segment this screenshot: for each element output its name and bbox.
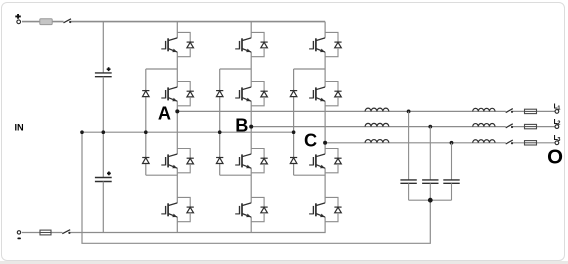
diode D18 (clamp)	[290, 158, 297, 164]
label L1	[554, 104, 561, 112]
diode D17 (clamp)	[290, 91, 297, 97]
transistor Q4 (IGBT)	[161, 203, 177, 217]
diode D15 (clamp)	[216, 91, 223, 97]
node: DC-link capacitor junction	[102, 130, 106, 134]
node B	[249, 125, 253, 129]
transistor Q7 (IGBT)	[235, 154, 251, 168]
node: neutral bus junction leg 3	[292, 130, 296, 134]
wire: leg 2 lower clamp branch	[220, 132, 252, 175]
inductor Lc2	[473, 140, 495, 143]
wire: leg 1 lower clamp branch	[146, 132, 178, 175]
wire: leg 3 vertical spine	[324, 22, 326, 233]
diode D4 (freewheel of Q4)	[177, 197, 194, 221]
transistor Q1 (IGBT)	[161, 38, 177, 52]
label L3	[554, 135, 561, 143]
transistor Q11 (IGBT)	[309, 154, 325, 168]
wire: leg 2 upper clamp branch	[220, 69, 252, 132]
diode D7 (freewheel of Q7)	[251, 149, 268, 173]
inductor Lb2	[473, 124, 495, 127]
node: neutral bus junction leg 1	[144, 130, 148, 134]
inductor Lb1	[365, 123, 389, 126]
switch S4 (output phase B)	[506, 124, 513, 128]
diode D2 (freewheel of Q2)	[177, 82, 194, 106]
inductor La1	[365, 108, 389, 111]
wire: neutral mid bus	[82, 131, 294, 133]
transistor Q12 (IGBT)	[309, 203, 325, 217]
capacitor C5 (filter, phase C)	[443, 180, 459, 200]
diode D14 (clamp)	[142, 158, 149, 164]
switch S2 (DC-)	[62, 230, 70, 234]
svg-text:3: 3	[557, 137, 560, 143]
transistor Q6 (IGBT)	[235, 87, 251, 101]
capacitor C2 (lower DC link)	[95, 132, 112, 232]
terminal L1	[555, 110, 559, 114]
diode D5 (freewheel of Q5)	[251, 32, 268, 56]
diode D3 (freewheel of Q3)	[177, 149, 194, 173]
label L2	[554, 119, 561, 127]
wire: leg 1 vertical spine	[176, 22, 178, 233]
label: + polarity mark	[15, 14, 20, 19]
wire: neutral riser down-left	[82, 132, 430, 243]
terminal L2	[555, 125, 559, 129]
switch S3 (output phase A)	[506, 109, 513, 113]
terminal: DC+ input	[17, 20, 21, 24]
diode D6 (freewheel of Q6)	[251, 82, 268, 106]
terminal: DC- input	[17, 231, 20, 234]
wire: filter branch phase C	[451, 143, 453, 180]
diode D1 (freewheel of Q1)	[177, 32, 194, 56]
wire: filter capacitor common rail	[409, 199, 452, 201]
svg-text:A: A	[158, 104, 171, 124]
svg-text:IN: IN	[15, 122, 25, 132]
capacitor C3 (filter, phase A)	[400, 180, 416, 200]
wire: phase B output line	[251, 126, 555, 128]
transistor Q10 (IGBT)	[309, 87, 325, 101]
node: neutral riser junction	[80, 130, 84, 134]
capacitor C1 (upper DC link)	[95, 22, 112, 133]
node: neutral bus junction leg 2	[218, 130, 222, 134]
svg-text:B: B	[235, 116, 248, 136]
svg-text:O: O	[547, 147, 563, 169]
svg-text:1: 1	[557, 106, 560, 112]
inductor La2	[473, 108, 495, 111]
transistor Q8 (IGBT)	[235, 203, 251, 217]
node: filter tap phase C	[450, 141, 454, 145]
wire: top DC+ bus	[22, 21, 325, 23]
diode D8 (freewheel of Q8)	[251, 197, 268, 221]
wire: bottom DC- bus	[22, 232, 326, 234]
inductor Lc1	[365, 140, 389, 143]
fuse F5 (output phase C)	[525, 141, 537, 145]
capacitor C4 (filter, phase B)	[422, 180, 438, 200]
wire: filter branch phase B	[429, 127, 431, 180]
transistor Q2 (IGBT)	[161, 87, 177, 101]
wire: leg 3 upper clamp branch	[294, 69, 326, 132]
diode D16 (clamp)	[216, 158, 223, 164]
node: filter neutral	[428, 198, 433, 203]
node: filter tap phase B	[428, 125, 432, 129]
diode D10 (freewheel of Q10)	[325, 82, 342, 106]
svg-text:2: 2	[557, 121, 560, 127]
terminal L3	[555, 141, 559, 145]
transistor Q5 (IGBT)	[235, 38, 251, 52]
switch S1 (DC+)	[64, 19, 72, 23]
switch S5 (output phase C)	[506, 140, 513, 144]
node: filter tap phase A	[407, 110, 411, 114]
wire: phase A output line	[177, 110, 555, 112]
diode D11 (freewheel of Q11)	[325, 149, 342, 173]
fuse F3 (output phase A)	[525, 109, 537, 113]
diode D12 (freewheel of Q12)	[325, 197, 342, 221]
fuse F4 (output phase B)	[525, 124, 537, 128]
node A	[175, 109, 179, 113]
wire: phase C output line	[325, 142, 555, 144]
wire: filter branch phase A	[408, 111, 410, 179]
diode D9 (freewheel of Q9)	[325, 32, 342, 56]
diode D13 (clamp)	[142, 91, 149, 97]
wire: leg 2 vertical spine	[250, 22, 252, 233]
transistor Q9 (IGBT)	[309, 38, 325, 52]
fuse F1 (DC+ input)	[40, 19, 52, 25]
fuse F2 (DC- input)	[40, 230, 51, 235]
transistor Q3 (IGBT)	[161, 154, 177, 168]
wire: leg 3 lower clamp branch	[294, 132, 326, 175]
label: - polarity mark	[17, 238, 21, 240]
node C	[323, 141, 327, 145]
wire: leg 1 upper clamp branch	[146, 69, 178, 132]
svg-text:C: C	[304, 131, 317, 151]
